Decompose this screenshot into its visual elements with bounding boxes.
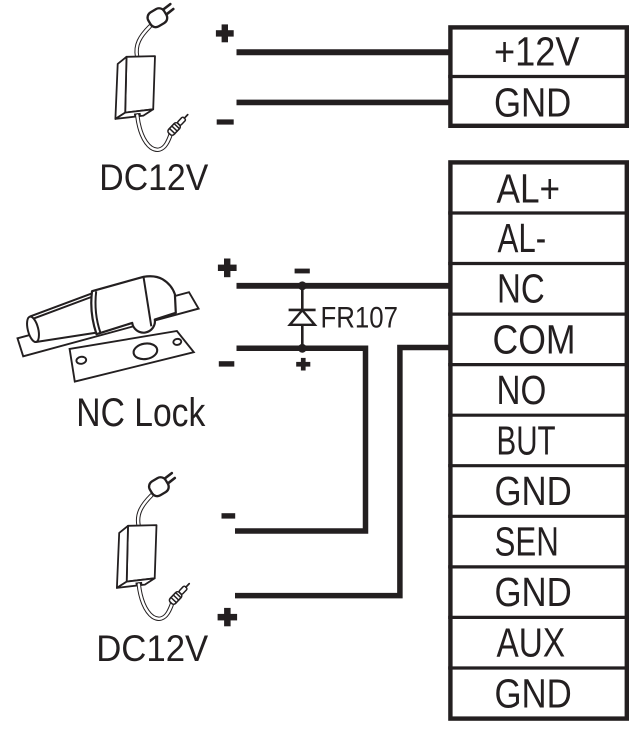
lock mounting bracket plate — [18, 292, 199, 356]
wire lock- down to PS2- — [235, 348, 366, 531]
svg-text:AUX: AUX — [497, 620, 566, 666]
minus sign PS1 - — [217, 119, 234, 124]
svg-text:BUT: BUT — [497, 417, 556, 463]
svg-text:GND: GND — [494, 79, 571, 125]
lock body — [91, 276, 176, 334]
terminal block TB2 — [450, 162, 626, 718]
svg-text:SEN: SEN — [495, 519, 559, 565]
svg-text:COM: COM — [493, 316, 576, 362]
svg-text:NO: NO — [497, 367, 547, 413]
plus sign PS1 + — [216, 24, 234, 42]
svg-text:GND: GND — [495, 670, 572, 716]
terminal block TB1 — [450, 27, 626, 125]
wire PS1- to GND — [237, 100, 454, 106]
NC lock assembly — [18, 276, 199, 381]
minus polarity mark at diode cathode — [295, 269, 310, 274]
plus sign PS2 + — [218, 608, 238, 626]
plus polarity mark at diode anode — [296, 358, 310, 371]
svg-text:DC12V: DC12V — [99, 157, 208, 198]
minus sign lock - — [219, 361, 235, 366]
power adapter PS1 (top) — [115, 4, 190, 150]
svg-text:GND: GND — [495, 468, 572, 514]
wire lock+ to NC — [237, 283, 454, 289]
lock strike plate — [70, 331, 194, 382]
junction node upper — [298, 281, 307, 290]
svg-text:FR107: FR107 — [321, 302, 399, 335]
power adapter PS2 (bottom) — [117, 473, 192, 619]
wire COM down to PS2+ — [235, 348, 453, 596]
wire PS1+ to +12V — [237, 49, 454, 55]
svg-text:+12V: +12V — [494, 29, 580, 75]
svg-text:NC: NC — [497, 266, 545, 312]
minus sign PS2 - — [222, 513, 236, 518]
svg-text:AL-: AL- — [498, 215, 547, 261]
svg-text:DC12V: DC12V — [96, 628, 208, 669]
svg-text:GND: GND — [495, 569, 572, 615]
lock bolt — [25, 292, 102, 343]
plus sign lock + — [218, 259, 237, 278]
svg-text:AL+: AL+ — [497, 166, 561, 212]
junction node lower — [298, 344, 307, 353]
svg-text:NC Lock: NC Lock — [76, 391, 206, 435]
diode D1 — [289, 286, 316, 349]
